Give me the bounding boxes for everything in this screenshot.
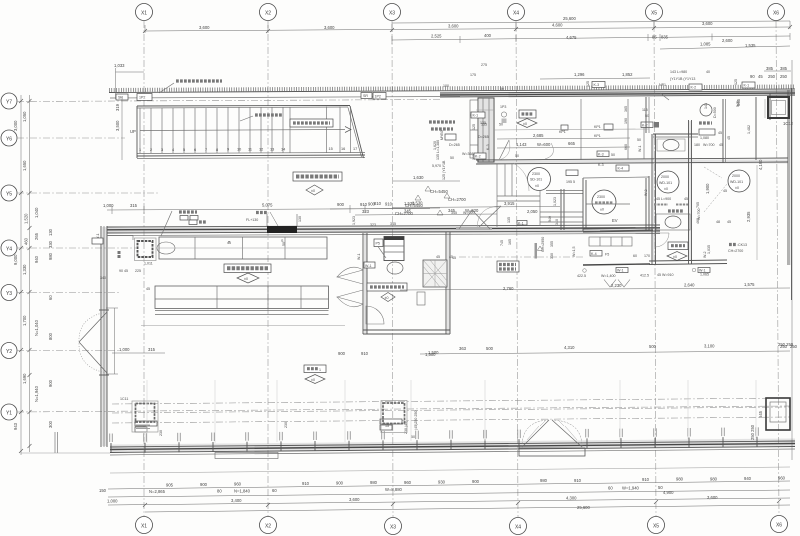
svg-text:50: 50 [637,138,641,142]
kitchen island [141,237,345,326]
wire louver base line [109,89,795,93]
wall storage north [645,97,647,133]
svg-text:143: 143 [704,103,708,109]
svg-text:K-2: K-2 [475,155,481,159]
wall right exterior [787,90,789,265]
svg-text:230: 230 [284,422,288,428]
svg-text:P5: P5 [376,242,380,246]
svg-text:900: 900 [338,351,346,356]
level diamond tenpo [305,375,325,384]
node Y3 [1,285,17,301]
entry recess rect [519,448,585,456]
svg-text:943: 943 [13,422,18,430]
svg-text:323: 323 [362,209,370,214]
svg-text:K-1: K-1 [518,221,524,225]
stair outline top [137,105,350,108]
svg-text:45: 45 [684,197,688,201]
svg-text:D=265: D=265 [478,135,489,139]
svg-text:910: 910 [574,478,582,483]
svg-text:4,190: 4,190 [758,159,763,170]
svg-text:5,970: 5,970 [432,164,441,168]
svg-text:3,600: 3,600 [707,495,718,500]
svg-text:45 L=900: 45 L=900 [656,197,671,201]
svg-text:±0: ±0 [673,255,677,259]
svg-text:(Y1Y1B (Y1Y13: (Y1Y1B (Y1Y13 [670,77,695,81]
dimension row y351 [420,351,790,354]
label fujo box [519,110,536,118]
node Y2 [1,343,17,359]
column X3Y1 [381,401,407,433]
wall toilet right vertical [688,120,690,264]
lower bench lines [155,310,329,312]
svg-text:≡: ≡ [228,240,230,244]
entrance hall label box [293,172,342,195]
svg-text:±0: ±0 [600,208,604,212]
bench row [589,237,632,246]
wall stub right mid [755,97,757,160]
top dimension lines [145,16,790,49]
svg-text:1,520: 1,520 [24,213,29,224]
svg-text:330: 330 [48,240,53,248]
dimension row sub [392,36,790,40]
label kasagi-tesuri leader [255,113,283,116]
label entrance hall [293,172,342,181]
svg-text:90: 90 [750,74,755,79]
mid dimension rows right [112,261,794,357]
svg-text:315: 315 [130,203,138,208]
svg-text:1,535: 1,535 [745,43,756,48]
svg-text:9: 9 [227,148,229,152]
svg-text:X4: X4 [513,11,519,17]
svg-text:910: 910 [642,477,650,482]
svg-text:8: 8 [216,148,218,152]
svg-text:15: 15 [385,424,389,428]
label tearai [699,121,712,124]
svg-text:D=500: D=500 [713,107,717,118]
svg-text:K-3: K-3 [598,163,604,167]
wash counter mid [656,214,690,230]
svg-text:1,690: 1,690 [22,373,27,384]
svg-text:W=600: W=600 [537,142,551,147]
svg-text:250: 250 [768,74,776,79]
svg-text:400: 400 [484,33,492,38]
back kitchen room [337,232,450,334]
grid axis circles top [136,4,785,21]
svg-text:11: 11 [248,148,252,152]
svg-text:N=1,040: N=1,040 [34,319,39,336]
svg-text:N=2,865: N=2,865 [149,489,166,494]
svg-text:16: 16 [341,147,345,151]
interior faint verticals shop [147,380,756,443]
genkan step verticals [504,164,506,196]
faint dim line y470 [110,467,790,473]
wash basin oval mid [663,140,679,151]
svg-text:45: 45 [146,287,150,291]
genkan interior light lines [476,110,649,227]
level diamond back kitchen [381,293,395,302]
wire Y5 grid line [17,192,160,194]
svg-text:UP: UP [130,129,136,134]
svg-text:265: 265 [34,232,39,240]
svg-text:1P2: 1P2 [139,96,145,100]
svg-text:50: 50 [500,87,504,91]
text hinkata [729,243,736,246]
wire Y2 grid line [17,350,120,352]
svg-text:345: 345 [451,211,457,215]
wall main horizontal upper line [107,225,660,227]
svg-text:X2: X2 [265,524,271,530]
wire X5 grid line [654,21,656,516]
svg-text:45: 45 [758,74,763,79]
level diamond kitchen [237,273,259,283]
svg-text:2000: 2000 [732,174,740,178]
svg-text:195 5: 195 5 [566,180,575,184]
wire X2 grid line [267,21,269,516]
louver hatch strip [109,87,795,91]
svg-text:4,600: 4,600 [552,23,563,28]
svg-text:±0: ±0 [311,378,315,382]
wire second facade line [110,97,460,99]
wall back kitchen bottom [363,329,450,331]
node Y7 [1,93,17,109]
svg-text:KP1: KP1 [594,125,601,129]
svg-text:K-3: K-3 [486,144,490,150]
svg-text:7: 7 [205,148,207,152]
svg-text:330: 330 [550,253,554,259]
svg-text:2,640: 2,640 [684,283,695,288]
svg-text:1,000: 1,000 [119,347,130,352]
svg-text:125 (Y1Y1B: 125 (Y1Y1B [442,160,446,180]
svg-text:1,033: 1,033 [114,63,125,68]
svg-text:1,923: 1,923 [352,216,356,225]
tag K-3 box [592,82,605,88]
genkan right area details [581,99,659,160]
svg-text:345: 345 [390,222,396,226]
left outer boundary [21,452,110,454]
vestibule area [440,82,795,231]
wall bottom long upper [110,441,795,447]
svg-text:545: 545 [758,410,763,418]
svg-text:Y3: Y3 [6,291,12,297]
node X5 bottom [648,517,665,534]
svg-text:960: 960 [778,476,786,481]
svg-text:910: 910 [385,202,393,207]
svg-text:50: 50 [499,123,503,127]
svg-text:±0: ±0 [664,187,668,191]
svg-text:835: 835 [661,35,669,40]
svg-text:250 250: 250 250 [750,424,755,440]
svg-text:W-1: W-1 [617,269,624,273]
svg-text:48: 48 [716,220,720,224]
svg-text:K-3: K-3 [598,153,604,157]
dimension row spans [145,27,790,31]
dimension row above wall [107,209,430,211]
svg-text:1,085: 1,085 [700,42,711,47]
svg-text:960: 960 [234,482,242,487]
wall vestibule south [476,158,788,160]
svg-text:1P3: 1P3 [500,105,506,109]
svg-text:X2: X2 [265,11,271,17]
svg-text:1,040: 1,040 [34,207,39,218]
top louver band [109,63,795,101]
svg-text:4,310: 4,310 [564,345,575,350]
node Y4 [1,240,17,256]
svg-text:190: 190 [624,118,628,124]
small boxes under tearai [699,129,715,135]
node Y1 [1,404,17,420]
entrance door swing [499,140,509,160]
svg-text:K-1: K-1 [744,84,750,88]
dimension 3,500 stair left [121,97,123,160]
steps lines genkan [540,211,583,213]
svg-text:2,935: 2,935 [746,211,751,222]
svg-text:17: 17 [353,147,357,151]
svg-text:980: 980 [370,480,378,485]
svg-text:900: 900 [336,481,344,486]
sink unit [384,237,404,261]
svg-text:K-4: K-4 [591,252,597,256]
svg-text:K-2: K-2 [691,86,697,90]
wall left vertical [100,226,102,447]
svg-text:1,011: 1,011 [144,262,153,266]
svg-text:Y6: Y6 [6,137,12,143]
svg-text:CH=2700: CH=2700 [448,197,466,202]
svg-text:810: 810 [374,201,382,206]
label toilet box [668,242,688,250]
label okugai-hinan-kaidan box [290,119,333,127]
svg-text:365: 365 [624,106,628,112]
svg-text:X5: X5 [653,524,659,530]
svg-text:X6: X6 [776,523,782,529]
node X3 top [384,4,401,21]
svg-text:X4: X4 [515,525,521,531]
svg-text:2,760: 2,760 [503,286,514,291]
svg-text:45: 45 [718,131,722,135]
svg-text:±0: ±0 [385,296,389,300]
dims above back kitchen [330,201,453,268]
grid axis circles bottom [136,516,788,535]
svg-text:4,675: 4,675 [566,35,577,40]
mullion ticks [111,437,757,453]
svg-text:422.5: 422.5 [577,274,586,278]
svg-text:SR: SR [363,94,368,98]
genkan south dim cluster [392,201,583,260]
svg-text:960: 960 [404,480,412,485]
svg-text:4: 4 [172,148,174,152]
svg-text:460: 460 [24,237,29,245]
door arc toilet [655,233,669,247]
level diamond toilet [667,252,687,261]
svg-text:45: 45 [449,255,453,259]
svg-text:X3: X3 [389,11,395,17]
svg-text:980: 980 [540,478,548,483]
svg-text:3,600: 3,600 [448,24,459,29]
island band [155,286,329,309]
svg-text:4,300: 4,300 [566,496,577,501]
svg-text:60: 60 [608,486,613,491]
tag circle WD-101 right [728,170,750,192]
right margin dims [736,60,798,460]
svg-text:W=368: W=368 [462,152,474,156]
svg-text:1,575: 1,575 [744,282,755,287]
node X4 top [508,4,525,21]
label open kitchen box [224,264,271,273]
svg-text:900: 900 [472,479,480,484]
svg-text:W=8,880: W=8,880 [385,487,403,492]
svg-text:Y5: Y5 [6,192,12,198]
stair right slant [350,106,364,158]
svg-text:2000: 2000 [661,175,669,179]
svg-text:2300: 2300 [532,172,540,176]
svg-text:500: 500 [649,344,657,349]
svg-text:3,915: 3,915 [504,201,515,206]
node Y6 [1,130,17,146]
svg-text:W=1,400: W=1,400 [601,274,615,278]
svg-text:905: 905 [166,483,174,488]
svg-text:150: 150 [99,488,107,493]
svg-text:±0: ±0 [735,186,739,190]
label senmen [668,209,683,212]
svg-text:1,050: 1,050 [22,111,27,122]
svg-text:135: 135 [480,121,486,125]
svg-text:130: 130 [298,216,302,222]
svg-text:1,500: 1,500 [428,350,439,355]
column X1Y4 [96,233,175,265]
svg-text:500: 500 [486,346,494,351]
column C1 [135,238,157,261]
svg-text:980: 980 [48,252,53,260]
genkan EV area [355,165,650,265]
svg-text:130: 130 [48,228,53,236]
svg-text:135 L=1,380: 135 L=1,380 [436,140,440,160]
wire Y1 grid line [17,406,790,412]
door double swing left [79,312,107,373]
svg-text:2,525: 2,525 [431,34,442,39]
node X2 top [260,4,277,21]
svg-text:1,330: 1,330 [22,264,27,275]
left exterior wall [79,226,118,447]
stair left edge [136,106,138,158]
tag boxes above wall [135,421,157,426]
svg-text:3,000: 3,000 [13,120,18,131]
wall back kitchen left [362,233,364,334]
label tenpo1 box [304,365,326,373]
svg-text:1,296: 1,296 [574,72,585,77]
tag 1P2 box right [373,93,386,100]
EV shaft walls [582,178,584,231]
dimension small row [108,481,790,489]
wall rooms bottom [649,260,727,261]
svg-text:EV: EV [612,218,618,223]
svg-text:1,650: 1,650 [22,160,27,171]
dumbwaiter hatched box [423,260,447,287]
node X4 bottom [510,518,527,535]
mullion stub ticks above wall [110,427,758,442]
svg-text:WD-101: WD-101 [730,180,743,184]
svg-text:355: 355 [550,241,554,247]
svg-text:50: 50 [515,154,519,158]
svg-text:1,900: 1,900 [705,183,710,194]
svg-text:X3: X3 [390,525,396,531]
basin circle top [700,104,712,116]
genkan agarikamachi wall [560,189,562,230]
column top right [768,97,789,118]
svg-text:14: 14 [281,148,285,152]
svg-text:SR: SR [118,96,123,100]
svg-text:±0: ±0 [311,189,315,193]
wire Y4 grid line [17,247,136,249]
svg-text:3,600: 3,600 [349,497,360,502]
wall toilet left vertical [651,134,653,264]
svg-text:275: 275 [481,63,487,67]
svg-text:D=265: D=265 [449,143,460,147]
svg-text:800: 800 [48,332,53,340]
wall back kitchen right [445,232,447,334]
svg-text:319: 319 [115,103,120,111]
svg-text:170: 170 [644,254,650,258]
svg-text:1: 1 [139,148,141,152]
svg-text:W-2: W-2 [703,251,707,258]
svg-text:3,100: 3,100 [704,344,715,349]
closet tags [566,170,578,176]
svg-text:K-4: K-4 [618,167,624,171]
svg-text:930: 930 [438,479,446,484]
svg-text:W-1: W-1 [357,253,361,260]
bottom storefront wall [110,398,795,473]
fixture ellipse by column [157,242,175,254]
svg-text:1,630: 1,630 [413,175,424,180]
columns bottom row [120,397,790,439]
svg-text:CH=2700: CH=2700 [395,211,413,216]
svg-text:9,000: 9,000 [13,254,18,265]
node X1 bottom [136,517,153,534]
svg-text:412.5: 412.5 [640,274,649,278]
svg-text:1,000: 1,000 [103,203,114,208]
svg-text:323: 323 [370,223,376,227]
svg-text:F5: F5 [605,253,609,257]
svg-text:±0: ±0 [244,277,248,281]
svg-text:Y4: Y4 [6,247,12,253]
svg-text:(45)250 250: (45)250 250 [414,411,418,430]
stair outline bottom [137,155,365,156]
svg-text:45: 45 [727,220,731,224]
svg-text:230: 230 [159,430,163,436]
vertical grid dash-dot lines [144,21,779,517]
left mid annotations [92,112,490,280]
svg-text:W-1: W-1 [638,145,642,152]
node X2 bottom [260,517,277,534]
svg-text:3,600: 3,600 [324,25,335,30]
wire Y3 grid line [17,292,120,294]
svg-text:6: 6 [194,148,196,152]
tag K-4 box [616,165,629,171]
svg-text:1: 1 [319,368,321,372]
svg-text:±0: ±0 [523,122,527,126]
tag 1P2 box [137,94,152,101]
svg-text:50: 50 [411,435,415,439]
node X3 bottom [385,518,402,535]
svg-text:W-1: W-1 [365,264,372,268]
main mid wall [103,202,660,247]
dimension total row [145,505,790,512]
bottom dimension lines [99,475,800,512]
svg-text:980: 980 [676,477,684,482]
svg-text:1,143: 1,143 [516,142,527,147]
svg-text:MYB0: MYB0 [440,130,444,140]
tag SR box [116,94,128,100]
svg-text:85: 85 [652,35,657,40]
node X6 bottom [771,516,788,533]
